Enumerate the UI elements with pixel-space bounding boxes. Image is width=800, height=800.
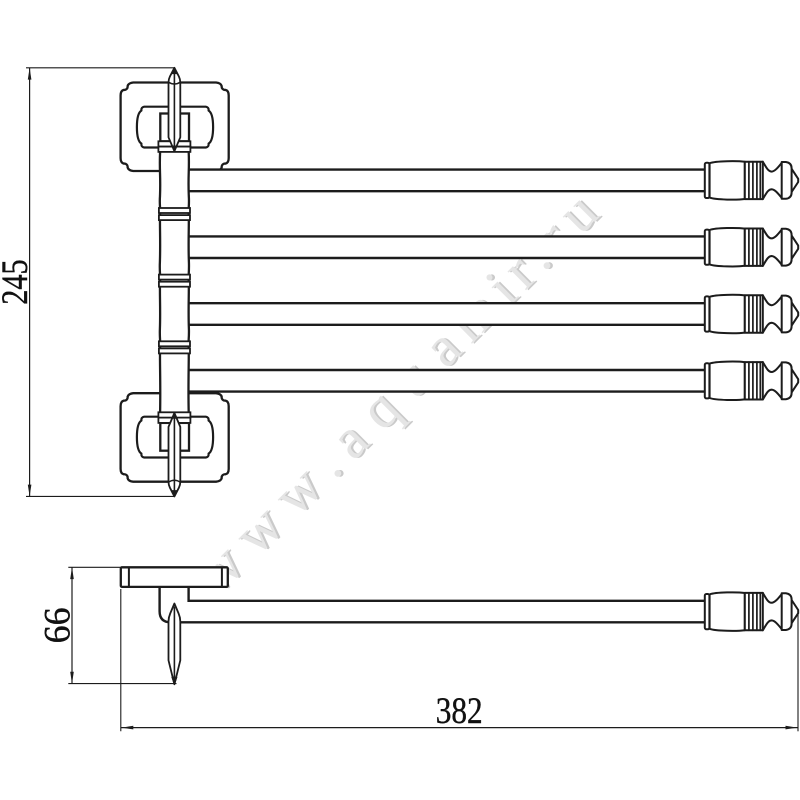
dimension 66 arrow up xyxy=(70,567,74,579)
dimension 245 arrow up xyxy=(28,68,32,80)
ring group 1 xyxy=(159,208,190,220)
svg-text:245: 245 xyxy=(0,259,36,305)
column left edge xyxy=(159,152,162,412)
side pin body xyxy=(169,604,181,685)
column fill xyxy=(160,152,189,412)
knob 3 xyxy=(705,295,798,333)
dimension 245 line xyxy=(29,68,31,497)
knob 2 xyxy=(705,228,798,266)
dimension 382 arrow right xyxy=(786,726,798,730)
dimension 382 extension line left xyxy=(120,589,122,731)
arm 3 xyxy=(188,303,705,325)
dimension 245 extension line bottom xyxy=(26,495,174,497)
dimension 382 arrow left xyxy=(122,726,134,730)
arm 2 xyxy=(188,236,705,258)
side pin solid tip xyxy=(172,677,177,684)
slab end caps xyxy=(129,567,222,587)
top mount plate xyxy=(121,83,229,172)
arm 1 xyxy=(188,170,705,192)
watermark www.aquamir.ru xyxy=(182,179,612,607)
dimension 245 arrow down xyxy=(28,485,32,497)
housing left + arm bottom line xyxy=(160,587,705,622)
wall plate slab xyxy=(121,567,228,587)
bottom pin xyxy=(169,413,181,496)
ring group 2 xyxy=(159,275,190,287)
dimension 382 line xyxy=(121,727,798,729)
side pin xyxy=(169,604,181,685)
top bracket xyxy=(158,114,190,152)
arm 4 xyxy=(188,370,705,392)
dimension 66 line xyxy=(71,567,73,683)
top pin xyxy=(169,68,181,151)
column right edge xyxy=(187,152,190,412)
knob 4 xyxy=(705,362,798,400)
pivot housing and arm xyxy=(160,587,705,622)
side pin center line xyxy=(173,607,175,682)
svg-text:66: 66 xyxy=(37,607,78,643)
bottom mount plate xyxy=(121,393,229,482)
central column xyxy=(160,152,189,412)
dimension 66 extension line bottom xyxy=(68,683,176,685)
side knob xyxy=(705,592,798,630)
dimension 245 extension line top xyxy=(26,67,174,69)
dimension 66 extension line top xyxy=(68,566,121,568)
svg-text:382: 382 xyxy=(436,691,483,732)
dimension 66 arrow down xyxy=(70,672,74,684)
ring group 3 xyxy=(159,341,190,353)
bottom bracket xyxy=(158,412,190,450)
housing right + arm top line xyxy=(189,587,705,601)
knob 1 xyxy=(705,161,798,199)
slab outline xyxy=(121,567,228,587)
dimension 382 extension line right xyxy=(797,612,799,732)
